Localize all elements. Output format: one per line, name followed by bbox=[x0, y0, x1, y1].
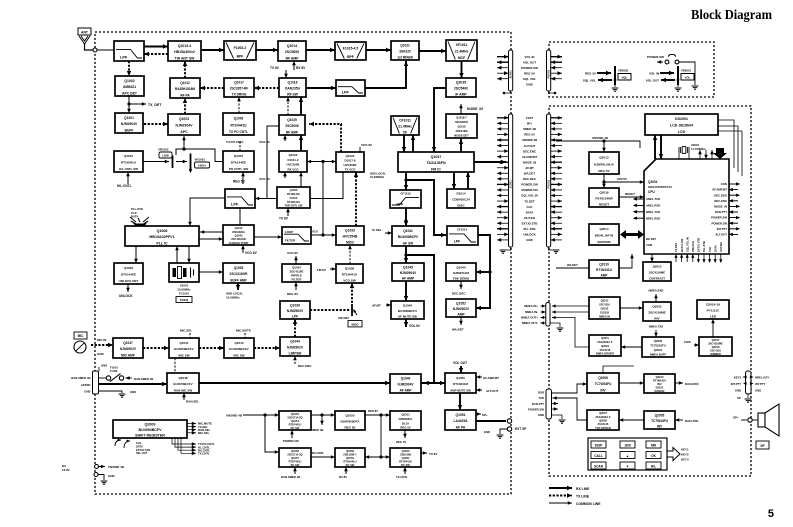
svg-text:ANT: ANT bbox=[81, 31, 89, 35]
svg-text:RX 8V: RX 8V bbox=[339, 475, 347, 479]
svg-text:GND: GND bbox=[538, 413, 544, 417]
wires data jack to INV and TXD driver bbox=[552, 382, 588, 423]
svg-text:TC7W34FU: TC7W34FU bbox=[651, 419, 669, 423]
svg-text:AF MUTE SW: AF MUTE SW bbox=[398, 314, 417, 318]
label 2ND LOCAL below buff amp bbox=[226, 283, 243, 300]
svg-text:TX.CNTL: TX.CNTL bbox=[396, 475, 408, 479]
svg-text:Q2020: Q2020 bbox=[654, 339, 663, 343]
svg-text:D1014: D1014 bbox=[456, 192, 465, 196]
svg-text:BUFF: BUFF bbox=[125, 128, 134, 132]
svg-text:Q2013: Q2013 bbox=[599, 156, 609, 160]
svg-text:SMED 4B: SMED 4B bbox=[311, 428, 323, 432]
wire CPU to LCD bbox=[653, 135, 663, 159]
contrast Q2015 bbox=[643, 262, 671, 281]
low pass filter LPF pll loop bbox=[225, 189, 255, 208]
svg-text:T/R ANT SW: T/R ANT SW bbox=[175, 56, 195, 60]
svg-text:Q1003: Q1003 bbox=[179, 117, 189, 121]
wire LPF3 to charge pump vertical bbox=[239, 208, 241, 225]
wire DC SW to REG 8V bbox=[311, 413, 335, 432]
svg-text:D1013: D1013 bbox=[290, 196, 298, 200]
svg-text:MIC AMP: MIC AMP bbox=[121, 353, 136, 357]
svg-text:NJM2904V: NJM2904V bbox=[121, 122, 138, 126]
svg-text:2SA2029A-F: 2SA2029A-F bbox=[595, 415, 611, 419]
svg-text:8P+: 8P+ bbox=[527, 122, 533, 126]
svg-text:SP+: SP+ bbox=[733, 416, 739, 420]
svg-text:POWER.SW: POWER.SW bbox=[528, 407, 544, 411]
connector key jack bbox=[746, 371, 752, 394]
svg-text:TX VCO: TX VCO bbox=[345, 168, 357, 172]
wire BPF to 1st MIXER bbox=[366, 48, 391, 52]
svg-text:21.4MHz: 21.4MHz bbox=[398, 125, 412, 129]
svg-text:Q1007: Q1007 bbox=[234, 154, 244, 158]
svg-text:LIMITER: LIMITER bbox=[289, 351, 302, 355]
svg-text:CONTRAST: CONTRAST bbox=[649, 276, 665, 280]
svg-text:NMEA OUT-: NMEA OUT- bbox=[522, 321, 538, 325]
svg-text:TX.DET: TX.DET bbox=[524, 199, 535, 203]
svg-text:FM IC: FM IC bbox=[431, 167, 441, 171]
ground main connector bbox=[500, 247, 560, 253]
mic switch Q1040 bbox=[224, 338, 254, 358]
svg-text:MR: MR bbox=[651, 443, 657, 447]
svg-text:POWER.ON: POWER.ON bbox=[711, 221, 727, 225]
wire UNSWD 4B to REG 5V Q2013 bbox=[556, 136, 640, 152]
label TX.CNTL below DC SW bbox=[396, 467, 408, 479]
arrows top connector bbox=[497, 55, 509, 59]
svg-text:TX DRIVE: TX DRIVE bbox=[232, 92, 247, 96]
svg-text:NJM2902V: NJM2902V bbox=[287, 309, 304, 313]
svg-text:TX 8V: TX 8V bbox=[270, 66, 280, 70]
CPU bottom pin labels vertical bbox=[674, 242, 678, 262]
svg-text:WA.DET: WA.DET bbox=[524, 172, 535, 176]
svg-text:HB15A300x2: HB15A300x2 bbox=[174, 50, 195, 54]
connector J1001 main bar bbox=[509, 114, 513, 247]
svg-text:BU4066BCFV: BU4066BCFV bbox=[229, 347, 248, 351]
svg-text:RESET: RESET bbox=[625, 192, 635, 196]
svg-text:NMEA IN+: NMEA IN+ bbox=[524, 304, 538, 308]
shift register outputs group1 bbox=[187, 422, 212, 426]
svg-text:Q1031: Q1031 bbox=[403, 229, 413, 233]
rf power amp Q1012 bbox=[170, 78, 200, 98]
label WA.DET below AMP Q1052 bbox=[452, 317, 464, 332]
loop filter bbox=[282, 227, 311, 244]
label NMEA.RXD above INV bbox=[649, 289, 664, 303]
svg-text:OUT.EN: OUT.EN bbox=[719, 242, 723, 252]
buffer amp Q1005 bbox=[223, 263, 254, 283]
svg-text:UNLOCK: UNLOCK bbox=[119, 294, 133, 298]
svg-text:LPF: LPF bbox=[292, 314, 298, 318]
svg-text:RT1N441U: RT1N441U bbox=[287, 192, 300, 196]
mic switch Q1041 bbox=[169, 338, 199, 358]
svg-text:WA.DET: WA.DET bbox=[646, 237, 657, 241]
svg-text:RED 8V: RED 8V bbox=[368, 409, 378, 413]
svg-text:EEPROM: EEPROM bbox=[597, 240, 611, 244]
svg-text:Q1019: Q1019 bbox=[457, 125, 466, 129]
wire LIMITER to LPF Q1039 bbox=[293, 319, 297, 337]
svg-text:21.846MHz: 21.846MHz bbox=[370, 175, 385, 179]
label POWER-ON below DC SW bbox=[283, 430, 299, 443]
svg-text:Q1059: Q1059 bbox=[346, 456, 354, 460]
svg-text:VCO 8V: VCO 8V bbox=[361, 143, 372, 147]
svg-text:Q1050: Q1050 bbox=[456, 376, 465, 380]
wire row1 to row2 power link bbox=[379, 415, 382, 459]
wire AF PA to EXT SP jack bbox=[476, 419, 527, 438]
svg-text:Q2006: Q2006 bbox=[599, 418, 607, 422]
reset ic Q2016 bbox=[589, 188, 619, 207]
wire LPF to APC DET bbox=[127, 61, 131, 76]
svg-text:MIC IN: MIC IN bbox=[97, 338, 106, 342]
wire LPF to 1st MIXER LO port bbox=[365, 61, 408, 88]
svg-text:Q1022: Q1022 bbox=[346, 154, 355, 158]
svg-text:APC: APC bbox=[180, 130, 188, 134]
wire pots to APC and PO CNTL SW bbox=[176, 136, 223, 162]
svg-text:DAN235U: DAN235U bbox=[285, 87, 301, 91]
keypad enclosure bbox=[588, 438, 667, 470]
svg-text:CLK: CLK bbox=[136, 441, 141, 445]
svg-text:TA31136FN: TA31136FN bbox=[426, 161, 446, 165]
terminal DC 13.8V bbox=[62, 464, 125, 472]
svg-text:Q1051: Q1051 bbox=[456, 413, 466, 417]
svg-text:DISP: DISP bbox=[595, 443, 603, 447]
svg-text:DATA: DATA bbox=[526, 210, 535, 214]
svg-text:OUT.EN: OUT.EN bbox=[524, 216, 535, 220]
svg-text:RT1N441U: RT1N441U bbox=[653, 378, 666, 382]
svg-text:DEC.DEC: DEC.DEC bbox=[523, 177, 537, 181]
cpu left serial labels bbox=[633, 197, 660, 201]
wire FM IC to NOISE DET bbox=[459, 139, 463, 152]
wire REG 8V to REG 5V bbox=[365, 409, 390, 417]
svg-text:2SC4116GR: 2SC4116GR bbox=[231, 237, 246, 241]
svg-text:Q1060: Q1060 bbox=[402, 449, 410, 453]
label COM into DIMMER bbox=[684, 340, 699, 347]
svg-text:▼: ▼ bbox=[626, 464, 629, 468]
svg-text:FSK DEMO: FSK DEMO bbox=[453, 276, 470, 280]
svg-text:REG 5V: REG 5V bbox=[524, 133, 535, 137]
svg-text:Q1026: Q1026 bbox=[290, 188, 298, 192]
wire TX PO CNTL to TX DRIVE bbox=[237, 97, 241, 113]
svg-text:13.8V: 13.8V bbox=[62, 468, 70, 472]
svg-text:RA35H1516M: RA35H1516M bbox=[175, 87, 196, 91]
labels top connector signals bbox=[525, 55, 535, 59]
label VOL IN below AF MUTE SW bbox=[404, 319, 420, 328]
svg-text:CF1014: CF1014 bbox=[457, 228, 468, 232]
svg-text:GND: GND bbox=[84, 390, 90, 394]
svg-text:POWER-ON: POWER-ON bbox=[283, 439, 299, 443]
svg-text:CF1011: CF1011 bbox=[399, 119, 411, 123]
svg-text:NMEA DRIVER: NMEA DRIVER bbox=[596, 352, 614, 356]
crystal filter CF1011 bbox=[391, 116, 419, 135]
svg-text:RX 8V: RX 8V bbox=[296, 66, 306, 70]
svg-text:RT1N441U: RT1N441U bbox=[596, 268, 613, 272]
svg-text:LED: LED bbox=[710, 314, 717, 318]
crystal X2001 bbox=[679, 143, 706, 159]
svg-text:LPF: LPF bbox=[120, 55, 128, 59]
wire charge pump to loop filter bbox=[254, 235, 282, 239]
wire RF AMP to BPF F1015 bbox=[306, 48, 335, 52]
shift register inputs CLK DTA bbox=[115, 439, 150, 456]
label MIC.SEL wire to RAN MIC SW bbox=[174, 358, 176, 373]
svg-text:AF.MT: AF.MT bbox=[372, 304, 381, 308]
ripple filter Q1034 bbox=[282, 264, 311, 282]
key MR bbox=[646, 441, 661, 448]
svg-text:INT.PTT: INT.PTT bbox=[717, 227, 728, 231]
svg-text:DC SW: DC SW bbox=[291, 426, 300, 430]
svg-text:2SD1714-2Q: 2SD1714-2Q bbox=[287, 415, 302, 419]
svg-text:GND: GND bbox=[130, 390, 136, 394]
svg-text:RF AMP: RF AMP bbox=[286, 130, 299, 134]
svg-text:Q2010: Q2010 bbox=[656, 375, 664, 379]
svg-text:RAN.SMED 4B: RAN.SMED 4B bbox=[134, 377, 153, 381]
svg-text:BATT.LOW: BATT.LOW bbox=[680, 238, 684, 252]
label IC.SEL into AF SW bbox=[372, 228, 392, 235]
svg-text:P1001: P1001 bbox=[547, 179, 551, 188]
svg-text:Q2023: Q2023 bbox=[601, 344, 609, 348]
svg-text:Q2017: Q2017 bbox=[712, 338, 720, 342]
connector bar mic jack bbox=[93, 371, 99, 394]
legend RX LINE bbox=[549, 486, 590, 491]
svg-text:Q2016: Q2016 bbox=[599, 191, 609, 195]
key &#9650; bbox=[620, 452, 635, 459]
high low control switch Q1010 bbox=[114, 151, 143, 172]
svg-text:CPU: CPU bbox=[648, 190, 655, 194]
svg-text:VCO 8V: VCO 8V bbox=[245, 251, 258, 255]
svg-text:2SC4116GR: 2SC4116GR bbox=[230, 272, 249, 276]
svg-text:NMEA BUFF: NMEA BUFF bbox=[650, 353, 667, 357]
svg-text:Q1043: Q1043 bbox=[235, 233, 243, 237]
wire RX VCO to buffer Q1025 bbox=[299, 135, 303, 151]
svg-text:VR1001: VR1001 bbox=[195, 158, 206, 162]
svg-text:RF AMP: RF AMP bbox=[286, 56, 300, 60]
svg-text:TC1001: TC1001 bbox=[179, 292, 190, 296]
svg-text:AMP: AMP bbox=[600, 273, 608, 277]
svg-text:RXD: RXD bbox=[538, 391, 544, 395]
svg-text:2SC5006: 2SC5006 bbox=[285, 124, 299, 128]
svg-text:UNLOCK: UNLOCK bbox=[523, 233, 536, 237]
dimmer Q2017 bbox=[699, 337, 732, 356]
svg-text:VCV: VCV bbox=[312, 230, 318, 234]
high pass filter CF1012 HPF bbox=[390, 190, 421, 208]
svg-text:2SC4116: 2SC4116 bbox=[598, 422, 609, 426]
svg-text:UNLOCK DET: UNLOCK DET bbox=[119, 279, 139, 283]
wire MCF to IF AMP Q2035 bbox=[459, 61, 463, 78]
label 2ND LOCAL at FM IC bbox=[370, 172, 386, 180]
svg-text:BU4053BCFV: BU4053BCFV bbox=[173, 382, 192, 386]
wire FM IC output to connector bbox=[474, 160, 506, 164]
label WA.DET inside CPU bbox=[646, 237, 657, 247]
antenna ANT bbox=[78, 28, 93, 50]
mic amp Q1047 bbox=[113, 338, 143, 358]
key 16/9 bbox=[620, 441, 635, 448]
svg-text:MOD: MOD bbox=[346, 240, 354, 244]
tx driver Q1017 bbox=[224, 78, 254, 97]
svg-text:ALT.OUT: ALT.OUT bbox=[524, 144, 536, 148]
svg-text:HVC350B: HVC350B bbox=[286, 163, 299, 167]
svg-text:PY1111C: PY1111C bbox=[707, 309, 720, 313]
svg-text:Q1033: Q1033 bbox=[345, 229, 355, 233]
svg-text:Q1005: Q1005 bbox=[234, 266, 244, 270]
label MIC.SEL above MIC SW bbox=[180, 329, 192, 339]
nrea driver Q2023 bbox=[589, 335, 621, 356]
tx power control Q1009 bbox=[223, 113, 254, 135]
svg-text:SQL.VOL.IN: SQL.VOL.IN bbox=[685, 237, 689, 252]
wire RF SW to buffer RF AMP Q1025 (tx dashed, rx solid) bbox=[286, 97, 303, 115]
svg-text:RT1N441U: RT1N441U bbox=[344, 459, 357, 463]
svg-text:SMED 4B: SMED 4B bbox=[523, 127, 536, 131]
svg-text:RAN.TXD: RAN.TXD bbox=[685, 419, 699, 423]
wire APC to RF PA bbox=[183, 98, 187, 114]
svg-text:OK: OK bbox=[651, 454, 656, 458]
rf amp Q1014 bbox=[278, 41, 306, 61]
svg-text:H/L CNTL SW: H/L CNTL SW bbox=[119, 167, 138, 171]
svg-text:TX LINE: TX LINE bbox=[576, 495, 590, 499]
pll ic Q1008 bbox=[125, 226, 199, 246]
svg-text:BU4053BCFV: BU4053BCFV bbox=[174, 347, 193, 351]
amp Q1052 bbox=[446, 299, 476, 317]
svg-text:Q1049: Q1049 bbox=[401, 377, 411, 381]
wire BUFF to APC bbox=[144, 122, 168, 126]
svg-text:2SD1714-2Q: 2SD1714-2Q bbox=[287, 452, 302, 456]
buffer Q1001 bbox=[115, 113, 143, 133]
svg-text:RF SW: RF SW bbox=[287, 92, 299, 96]
svg-text:APC DET: APC DET bbox=[122, 91, 138, 95]
svg-text:WA.DET: WA.DET bbox=[567, 263, 578, 267]
svg-text:DC SW: DC SW bbox=[346, 463, 355, 467]
svg-text:2SC5006: 2SC5006 bbox=[285, 50, 299, 54]
svg-text:H/L: H/L bbox=[651, 464, 656, 468]
svg-text:NJM2902V: NJM2902V bbox=[120, 347, 137, 351]
svg-text:Q2009: Q2009 bbox=[145, 423, 156, 427]
fuse F1001 bbox=[99, 366, 154, 382]
svg-text:AF AMP: AF AMP bbox=[402, 276, 415, 280]
svg-text:KEY1: KEY1 bbox=[681, 448, 689, 452]
svg-text:COMMON LINE: COMMON LINE bbox=[576, 502, 601, 506]
svg-text:EXT.IO.STB: EXT.IO.STB bbox=[136, 448, 150, 452]
svg-text:Q1055: Q1055 bbox=[345, 414, 354, 418]
pot VR1001 HIGH bbox=[176, 154, 210, 174]
key H/L bbox=[646, 462, 661, 469]
nrea buffer Q2020 bbox=[642, 337, 674, 357]
svg-text:AF.AMP.MT: AF.AMP.MT bbox=[483, 376, 499, 380]
svg-text:AMP MUTE SW: AMP MUTE SW bbox=[450, 388, 471, 392]
svg-text:HVC354B: HVC354B bbox=[343, 235, 358, 239]
svg-text:GND: GND bbox=[101, 364, 107, 368]
if amp Q2035 bbox=[446, 78, 476, 97]
svg-text:P2001: P2001 bbox=[547, 69, 551, 78]
svg-text:FM 8V: FM 8V bbox=[317, 268, 326, 272]
svg-text:Q2035: Q2035 bbox=[456, 81, 466, 85]
regulator 5v Q2011 bbox=[390, 411, 421, 430]
svg-text:2SC3357-RF: 2SC3357-RF bbox=[230, 87, 249, 91]
svg-text:Q1046: Q1046 bbox=[403, 304, 412, 308]
svg-text:3SK319M: 3SK319M bbox=[456, 129, 469, 133]
svg-text:FUSE: FUSE bbox=[110, 369, 118, 373]
wire NREA BUFF to NREA DRIVER bbox=[621, 345, 642, 349]
svg-text:SHIFT REGISTER: SHIFT REGISTER bbox=[135, 433, 165, 437]
audio lpf Q1039 bbox=[280, 301, 310, 319]
svg-text:15.65MHz: 15.65MHz bbox=[226, 296, 240, 300]
svg-text:UNSWD 4B: UNSWD 4B bbox=[108, 465, 125, 469]
svg-text:Q2007: Q2007 bbox=[599, 411, 607, 415]
label VCO 8V into charge pump bbox=[241, 245, 257, 255]
wire AF/MIC to RAN MIC SW bbox=[99, 382, 168, 386]
svg-text:RT1N441U: RT1N441U bbox=[287, 200, 300, 204]
ground NMEA OUT- bbox=[550, 323, 563, 331]
svg-text:WA.DET: WA.DET bbox=[452, 328, 464, 332]
svg-text:MIC SW: MIC SW bbox=[233, 353, 244, 357]
unlock detector Q1006 bbox=[114, 263, 143, 284]
svg-text:AF.AMP.MT: AF.AMP.MT bbox=[522, 155, 538, 159]
nrea in Q2012 bbox=[589, 297, 620, 319]
svg-text:BU4053BCFV: BU4053BCFV bbox=[398, 235, 419, 239]
inverter Q2008 TC7W34FU bbox=[587, 373, 619, 393]
label RAN.TXD into INV3 bbox=[675, 418, 699, 423]
svg-text:TX.DET: TX.DET bbox=[674, 242, 678, 252]
svg-text:NMEA IN-: NMEA IN- bbox=[525, 310, 538, 314]
svg-text:2SB1588-Y: 2SB1588-Y bbox=[343, 452, 357, 456]
svg-text:INV: INV bbox=[657, 424, 663, 428]
svg-text:HVC350B: HVC350B bbox=[343, 163, 356, 167]
svg-text:GND: GND bbox=[526, 238, 532, 242]
svg-text:GND: GND bbox=[97, 352, 105, 356]
svg-text:2SC4116ME: 2SC4116ME bbox=[649, 271, 665, 275]
wire EEPROM to CPU hollow arrow bbox=[620, 230, 644, 239]
svg-text:Block Diagram: Block Diagram bbox=[691, 8, 772, 23]
discriminator DISC bbox=[447, 189, 475, 208]
svg-text:LPF: LPF bbox=[454, 239, 460, 243]
wire VOL OUT to AMP MUTE SW bbox=[453, 361, 467, 373]
svg-text:TXD DRIVER: TXD DRIVER bbox=[595, 426, 611, 430]
label TX 8V into RF SW bbox=[270, 66, 288, 78]
svg-text:CON: CON bbox=[721, 182, 727, 186]
title Block Diagram bbox=[691, 8, 772, 23]
wires LCD to right edge bbox=[718, 120, 742, 176]
svg-text:AF.MT: AF.MT bbox=[525, 166, 534, 170]
wire VCO out to LPF loop and TX VCO bbox=[255, 126, 343, 200]
svg-text:LOW: LOW bbox=[162, 154, 169, 158]
label RX.CNTL into DC SW row2 bbox=[311, 451, 335, 459]
tx vco Q1022 bbox=[336, 152, 364, 172]
svg-text:SQL VOL: SQL VOL bbox=[583, 79, 596, 83]
svg-text:2SC5400: 2SC5400 bbox=[454, 87, 468, 91]
wire AF AMP to AMP MUTE SW bbox=[421, 381, 445, 385]
svg-text:DEC.ENC: DEC.ENC bbox=[523, 149, 537, 153]
label VCO 8V at buffer bbox=[259, 135, 287, 144]
svg-text:VCO 8V: VCO 8V bbox=[259, 140, 270, 144]
wire xtal to buff amp bbox=[199, 270, 223, 274]
svg-text:AF PA: AF PA bbox=[456, 425, 466, 429]
wire MIC SW to MIC SW2 bbox=[199, 346, 224, 350]
main unit dashed enclosure bbox=[95, 32, 511, 494]
svg-text:NJM7808DFA: NJM7808DFA bbox=[340, 420, 360, 424]
label RX 8V into RF AMP bbox=[292, 61, 306, 70]
wire LPF3 to PLL IC bbox=[188, 198, 225, 226]
svg-text:D2101: D2101 bbox=[656, 385, 664, 389]
svg-text:Q1017: Q1017 bbox=[234, 81, 244, 85]
wire T/R ANT SW to BPF F1003 bbox=[201, 48, 224, 52]
af mute switch Q1046 bbox=[391, 301, 424, 319]
svg-text:NJM2902V: NJM2902V bbox=[287, 346, 304, 350]
svg-text:MIC SW: MIC SW bbox=[178, 353, 189, 357]
svg-text:INT.PTT: INT.PTT bbox=[731, 382, 742, 386]
page number 5 bbox=[768, 508, 774, 520]
svg-text:ALT.OUT: ALT.OUT bbox=[486, 389, 499, 393]
wire NMEA DRIVER to NMEA OUT bbox=[552, 316, 589, 347]
svg-text:MC3361M: MC3361M bbox=[455, 120, 468, 124]
svg-text:INT.PTT: INT.PTT bbox=[755, 382, 766, 386]
dc switch Q1058 bbox=[335, 448, 365, 467]
bandpass filter F1003-2 BPF bbox=[224, 41, 256, 60]
svg-text:NJM2904V: NJM2904V bbox=[400, 271, 417, 275]
svg-text:GND: GND bbox=[484, 430, 490, 434]
